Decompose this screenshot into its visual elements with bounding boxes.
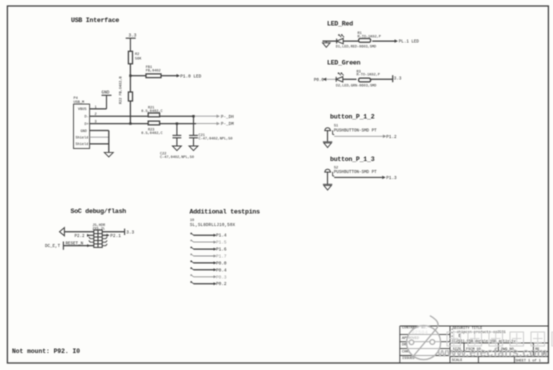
svg-text:SL,SL8DRLLJ10,50X: SL,SL8DRLLJ10,50X — [190, 224, 236, 228]
svg-text:button_P_1_2: button_P_1_2 — [330, 114, 375, 121]
wire button2 to gnd — [327, 172, 329, 184]
watermark logo circle — [407, 316, 441, 360]
ground symbol C22 — [172, 146, 181, 151]
svg-text:C-47,0402,NPL,50: C-47,0402,NPL,50 — [199, 138, 233, 142]
svg-text:P1.2: P1.2 — [386, 135, 397, 140]
stub pin7 — [89, 240, 94, 242]
resistor R2 — [128, 51, 132, 64]
svg-text:P-_DM: P-_DM — [221, 122, 234, 127]
svg-text:D+: D+ — [85, 123, 89, 127]
wire LED to R3 — [343, 78, 357, 80]
svg-text:R-TO-1K02,P: R-TO-1K02,P — [357, 74, 380, 78]
wire pin4 P2.1 — [102, 234, 106, 236]
ground symbol LED_Red — [323, 41, 331, 47]
stub pin8 — [102, 240, 107, 242]
wire Shield b — [90, 143, 109, 145]
wire button2 to P1.3 — [334, 176, 382, 178]
svg-text:PUSHBUTTON-SMD PT: PUSHBUTTON-SMD PT — [334, 129, 377, 133]
ground symbol (USB shield) — [104, 152, 113, 157]
wire button to P1.2 — [334, 135, 383, 137]
svg-text:SoC debug/flash: SoC debug/flash — [71, 208, 127, 215]
stub pin10 — [102, 244, 107, 246]
testpin row P0.4 — [191, 268, 227, 274]
svg-text:P1.4: P1.4 — [216, 234, 227, 239]
svg-text:P0.3: P0.3 — [216, 275, 227, 280]
svg-text:Shield: Shield — [76, 142, 89, 147]
net flag P1.1 LED — [395, 39, 399, 42]
svg-text:GND: GND — [102, 91, 110, 96]
wire pin9 RESET_N long — [63, 245, 93, 247]
net flag P1.3 — [382, 176, 386, 179]
svg-text:P1.7: P1.7 — [216, 255, 227, 260]
header J5 body — [94, 230, 102, 247]
svg-text:R-TO-1K02,P: R-TO-1K02,P — [358, 35, 381, 39]
stub pin5 — [89, 237, 94, 239]
svg-text:Additional testpins: Additional testpins — [190, 209, 261, 216]
svg-text:USB_M: USB_M — [74, 101, 85, 105]
wire flag to LED — [326, 78, 336, 80]
wire button to gnd — [327, 131, 329, 142]
svg-text:Not mount: P92. I0: Not mount: P92. I0 — [12, 348, 80, 355]
title block right texts — [451, 327, 545, 363]
net flag P1.2 — [383, 135, 387, 138]
svg-text:FB,0402: FB,0402 — [146, 69, 161, 73]
testpin row P1.6 — [191, 247, 227, 253]
svg-text:3.3: 3.3 — [126, 230, 134, 235]
power flag 3.3 (LED_Green) — [392, 75, 394, 82]
svg-text:Shield: Shield — [76, 136, 89, 141]
power flag 3.3 (J5) — [124, 229, 126, 235]
junction cap C21 — [192, 115, 194, 117]
pushbutton S1 — [324, 128, 334, 135]
wire R22 to D+ line — [129, 101, 131, 124]
wire Shield a — [90, 136, 109, 138]
wire pin2 right to 3.3 — [102, 231, 124, 233]
wire pin1 left long — [64, 231, 93, 233]
ground symbol S2 — [323, 184, 332, 190]
LED D1 — [337, 35, 345, 44]
node junction FB1 — [129, 75, 131, 77]
svg-text:P2.2: P2.2 — [75, 235, 86, 239]
svg-text:P-_DH: P-_DH — [221, 115, 234, 120]
connector P4 USB_M — [74, 104, 90, 148]
LED D2 — [336, 73, 344, 82]
ground symbol C21 — [189, 146, 198, 151]
junction cap C22 — [176, 122, 178, 124]
wire D+ — [90, 123, 149, 125]
pushbutton S2 — [324, 169, 334, 176]
svg-text:S1: S1 — [334, 125, 338, 129]
svg-text:D1,LED,RED-0603,SMD: D1,LED,RED-0603,SMD — [336, 45, 376, 49]
testpin row P1.4 — [191, 233, 227, 239]
svg-text:P0.4: P0.4 — [216, 268, 227, 273]
svg-text:SCALE: SCALE — [452, 359, 463, 363]
resistor R22 — [128, 92, 132, 101]
title block frame — [400, 326, 548, 363]
svg-text:R2: R2 — [135, 53, 139, 57]
power flag 3.3 (USB) — [126, 38, 136, 51]
title block left texts — [402, 326, 428, 361]
power flag GND over connector — [102, 95, 112, 109]
wire node to FB1 — [130, 75, 146, 77]
capacitor C22 — [173, 124, 182, 146]
svg-text:USB Interface: USB Interface — [71, 17, 119, 24]
svg-text:DC_E,T: DC_E,T — [45, 245, 61, 249]
svg-text:PUSHBUTTON-SMD PT: PUSHBUTTON-SMD PT — [334, 171, 377, 175]
wire LED to R1 — [343, 40, 359, 42]
svg-text:56K: 56K — [135, 58, 142, 62]
testpin row P1.5 — [191, 240, 227, 246]
stub pin6 — [102, 237, 107, 239]
svg-text:www.elecfans.com: www.elecfans.com — [437, 345, 548, 359]
wire D- — [90, 115, 149, 117]
wire gnd to LED — [323, 40, 337, 42]
svg-text:P1.0 LED: P1.0 LED — [180, 74, 201, 79]
wire R3 right — [370, 78, 393, 80]
svg-text:P1.5: P1.5 — [216, 241, 227, 246]
svg-text:D2,LED,GRN-0603,SMD: D2,LED,GRN-0603,SMD — [336, 85, 376, 89]
net flag P1.0 LED — [177, 74, 181, 77]
net flag left (pin1) — [60, 228, 65, 236]
svg-text:0.5,0402,C: 0.5,0402,C — [141, 132, 162, 136]
svg-text:LED_Green: LED_Green — [327, 60, 361, 67]
svg-text:R22 FB,0402,B: R22 FB,0402,B — [120, 76, 124, 104]
svg-text:D-: D- — [85, 116, 89, 120]
ferrite bead FB1 — [146, 74, 161, 78]
wire R23 right — [160, 123, 196, 125]
svg-text:button_P_1_3: button_P_1_3 — [330, 156, 375, 163]
svg-text:C-47,0402,NPL,50: C-47,0402,NPL,50 — [160, 156, 194, 160]
testpin row P0.2 — [191, 282, 227, 288]
resistor R3 — [359, 78, 371, 82]
wire R21 right — [160, 115, 194, 117]
ground symbol S1 — [323, 142, 332, 148]
svg-text:GND: GND — [81, 130, 87, 134]
watermark chinese text — [447, 332, 553, 346]
wire VBUS — [90, 108, 107, 110]
wire R1 right — [372, 40, 394, 42]
wire gnd vertical — [108, 131, 110, 153]
svg-text:P2.1: P2.1 — [110, 234, 121, 239]
net flag P-_DH — [217, 115, 221, 118]
svg-text:P0.0: P0.0 — [314, 79, 325, 83]
svg-text:1: 1 — [95, 106, 97, 110]
testpin row P0.0 — [191, 261, 227, 267]
svg-text:10: 10 — [190, 219, 194, 223]
svg-text:CC2531-USB dongle USB activity: CC2531-USB dongle USB activity — [452, 339, 517, 344]
resistor R23 — [148, 121, 159, 125]
resistor R21 — [148, 113, 159, 117]
svg-text:P1.3: P1.3 — [386, 176, 397, 181]
capacitor C21 — [189, 116, 198, 146]
wire R2 to node — [129, 64, 131, 76]
wire GND pin — [90, 130, 109, 132]
wire pin3 P2.2 — [89, 234, 94, 236]
svg-text:RESET_N: RESET_N — [66, 242, 84, 246]
svg-text:3.3: 3.3 — [129, 34, 137, 39]
wire node to R22 — [129, 76, 131, 92]
svg-text:PL.1 LED: PL.1 LED — [399, 40, 420, 44]
net flag P-_DM — [217, 122, 221, 125]
net flag P2.1 — [107, 234, 110, 237]
junction on D+ — [129, 122, 131, 124]
wire FB1 to flag — [161, 75, 177, 77]
svg-text:P0.0: P0.0 — [216, 261, 227, 266]
svg-text:P0.2: P0.2 — [216, 282, 227, 287]
svg-text:P1.6: P1.6 — [216, 248, 227, 253]
svg-text:2: 2 — [95, 113, 97, 117]
testpin row P1.7 — [191, 254, 227, 260]
svg-text:3: 3 — [95, 121, 97, 125]
svg-text:3.3: 3.3 — [394, 78, 402, 82]
svg-text:VBUS: VBUS — [78, 108, 87, 112]
svg-text:LED_Red: LED_Red — [327, 21, 353, 28]
testpin row P0.3 — [191, 275, 227, 281]
svg-text:0.5,0402,C: 0.5,0402,C — [141, 110, 162, 114]
resistor R1 — [359, 39, 371, 43]
